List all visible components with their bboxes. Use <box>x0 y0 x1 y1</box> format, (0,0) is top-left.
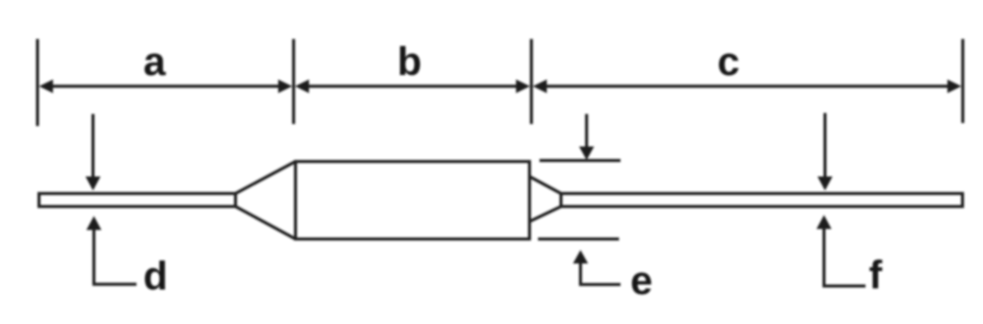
e up-arrowhead <box>573 250 588 264</box>
right lead (wire) <box>561 194 963 207</box>
svg-text:c: c <box>717 40 739 84</box>
d down-arrow stem <box>92 114 95 178</box>
left lead (wire) <box>39 194 236 207</box>
arrowhead a right <box>278 80 292 94</box>
svg-text:d: d <box>143 255 167 299</box>
d up-arrow stem and elbow to label <box>94 228 137 284</box>
extension tick 4 (right end of dimension c) <box>961 39 964 123</box>
svg-text:f: f <box>869 254 883 298</box>
arrowhead c right <box>947 80 961 94</box>
d up-arrowhead <box>86 216 101 230</box>
svg-text:e: e <box>630 259 652 303</box>
dimension line b <box>306 85 520 88</box>
e upper reference line <box>540 159 621 162</box>
f up-arrow stem and elbow to label <box>824 227 866 286</box>
arrowhead a left <box>39 80 53 94</box>
left cone (body taper) <box>236 162 296 240</box>
right cone (epoxy seal taper) <box>530 177 562 222</box>
arrowhead b left <box>295 80 309 94</box>
e up-arrow stem and elbow to label <box>581 262 621 285</box>
arrowhead c left <box>533 80 547 94</box>
d down-arrowhead <box>86 177 101 191</box>
dimension line c <box>544 85 950 88</box>
svg-text:b: b <box>397 40 421 84</box>
f down-arrowhead <box>818 177 833 191</box>
extension tick 1 (left end of dimension a) <box>36 39 39 126</box>
extension tick 3 (between b and c) <box>530 39 533 124</box>
dimension line a <box>50 85 282 88</box>
e down-arrow stem <box>585 114 588 148</box>
arrowhead b right <box>516 80 530 94</box>
f down-arrow stem <box>824 113 827 178</box>
svg-text:a: a <box>143 40 166 84</box>
body rectangle <box>296 162 530 240</box>
e down-arrowhead <box>579 147 594 161</box>
f up-arrowhead <box>817 215 832 229</box>
e lower reference line <box>538 238 619 241</box>
extension tick 2 (between a and b) <box>292 39 295 124</box>
